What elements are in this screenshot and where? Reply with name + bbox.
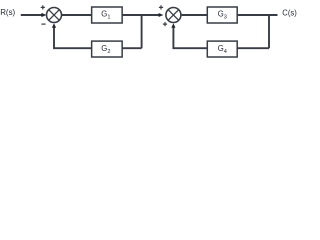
wire feedback 1 left segment (G2 to junction 1) bbox=[54, 27, 92, 48]
wire junction 1 to block G1 bbox=[62, 14, 92, 16]
svg-text:C(s): C(s) bbox=[282, 7, 297, 17]
arrowhead into summing junction 2 bbox=[159, 13, 164, 17]
wire G1 to summing junction 2 bbox=[122, 14, 159, 16]
takeoff node after G1, riser down bbox=[141, 15, 143, 48]
arrowhead up into summing junction 1 bbox=[52, 23, 56, 28]
plus sign at summing junction 2 input bbox=[159, 5, 163, 9]
wire feedback 2 left segment (G4 to junction 2) bbox=[173, 27, 207, 48]
wire feedback 2 right segment (takeoff to G4) bbox=[237, 47, 269, 49]
wire feedback 1 right segment (takeoff to G2) bbox=[122, 47, 141, 49]
summing junction 2 X cross bbox=[168, 10, 179, 21]
block G4 bbox=[207, 41, 237, 57]
arrowhead into summing junction 1 bbox=[41, 13, 46, 17]
minus sign at summing junction 1 feedback input bbox=[41, 23, 45, 25]
takeoff node after G3, riser down bbox=[268, 15, 270, 48]
block G1 bbox=[92, 7, 123, 23]
arrowhead up into summing junction 2 bbox=[171, 23, 175, 28]
svg-text:2: 2 bbox=[107, 49, 110, 55]
svg-text:R(s): R(s) bbox=[0, 7, 15, 17]
block G2 bbox=[92, 41, 123, 57]
svg-text:3: 3 bbox=[224, 15, 227, 21]
svg-text:4: 4 bbox=[224, 49, 227, 55]
summing junction 2 circle bbox=[166, 8, 181, 23]
block G3 bbox=[207, 7, 237, 23]
wire R(s) to summing junction 1 bbox=[21, 14, 43, 16]
plus sign at summing junction 1 input bbox=[41, 5, 45, 9]
plus sign at summing junction 2 feedback input bbox=[163, 22, 167, 26]
wire G3 to output bbox=[237, 14, 277, 16]
summing junction 1 X cross bbox=[49, 10, 60, 21]
svg-text:1: 1 bbox=[107, 15, 110, 21]
summing junction 1 circle bbox=[47, 8, 62, 23]
wire junction 2 to block G3 bbox=[182, 14, 208, 16]
